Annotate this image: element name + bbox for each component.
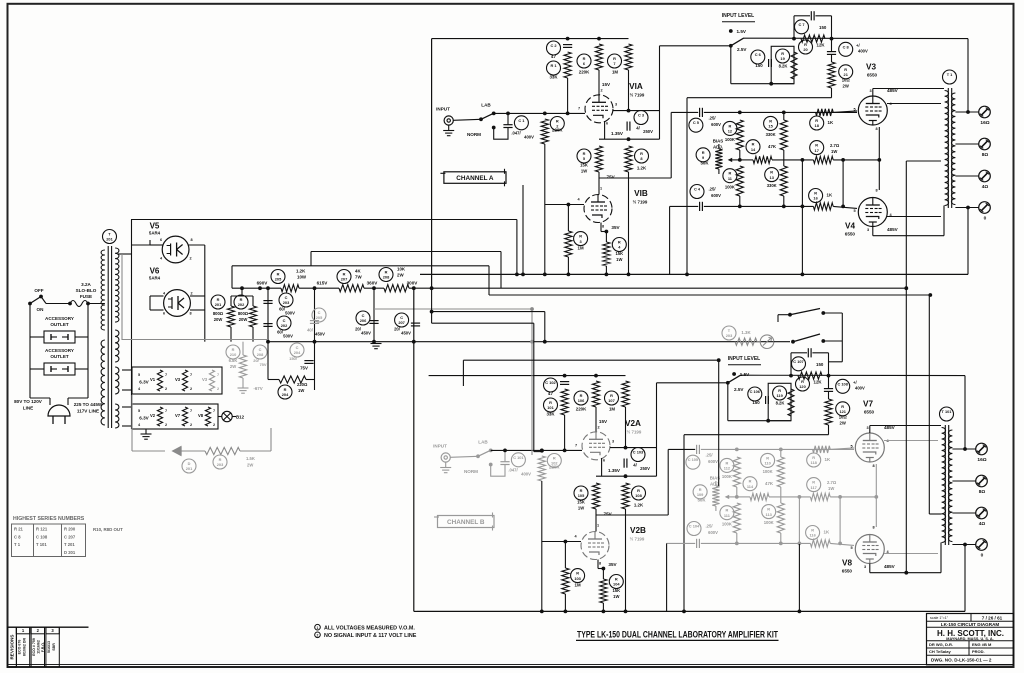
svg-text:5: 5 [138,409,140,413]
svg-text:B12: B12 [236,415,245,420]
svg-text:11/16/62: 11/16/62 [37,640,41,654]
svg-text:20: 20 [803,47,807,52]
svg-text:½ 7199: ½ 7199 [627,430,642,435]
svg-text:16Ω: 16Ω [980,120,989,126]
svg-text:V5: V5 [150,222,160,231]
svg-text:8: 8 [875,189,877,193]
svg-text:12K: 12K [817,43,826,48]
svg-text:2W: 2W [397,273,404,278]
svg-text:47: 47 [551,54,556,59]
svg-text:scale 1"=1": scale 1"=1" [930,616,949,620]
svg-text:C 107: C 107 [793,359,803,364]
svg-text:225 TO 445W: 225 TO 445W [74,402,103,407]
svg-text:TYPE LK-150 DUAL CHANNEL LABOR: TYPE LK-150 DUAL CHANNEL LABORATORY AMPL… [577,630,778,640]
svg-text:15K: 15K [577,500,585,505]
svg-text:2: 2 [213,423,215,427]
svg-text:C 8: C 8 [843,44,850,49]
svg-text:.25/: .25/ [709,187,717,192]
svg-text:R 21: R 21 [14,527,24,532]
svg-text:2.7Ω: 2.7Ω [830,143,840,148]
svg-text:10K: 10K [397,267,406,272]
svg-text:300V: 300V [407,281,419,286]
svg-text:V3: V3 [175,377,181,382]
svg-text:.75V: .75V [602,512,612,517]
svg-text:NO SIGNAL INPUT & 117 VOLT LIN: NO SIGNAL INPUT & 117 VOLT LINE [324,633,417,639]
svg-text:1: 1 [600,187,602,191]
svg-text:DWG. NO. D-LK-150-C1 — 2: DWG. NO. D-LK-150-C1 — 2 [931,658,992,663]
svg-text:120: 120 [799,384,806,389]
svg-text:ACCESSORY: ACCESSORY [45,348,74,353]
svg-text:3: 3 [866,426,868,430]
svg-text:400V: 400V [858,49,868,54]
svg-text:2: 2 [190,292,192,296]
svg-text:5: 5 [850,445,852,449]
svg-text:7 / 26 / 61: 7 / 26 / 61 [982,616,1003,621]
svg-text:220K: 220K [549,465,560,470]
svg-text:LAB: LAB [481,103,491,108]
svg-text:33K: 33K [549,75,558,80]
svg-text:3: 3 [615,103,617,107]
svg-text:118: 118 [811,460,818,465]
svg-text:150: 150 [816,362,824,367]
svg-text:500V: 500V [283,334,293,339]
svg-text:7: 7 [190,373,192,377]
svg-text:.75V: .75V [605,175,615,180]
svg-text:3: 3 [864,565,866,569]
svg-text:6550: 6550 [842,569,853,574]
svg-text:INPUT LEVEL: INPUT LEVEL [728,356,761,362]
svg-text:2: 2 [165,387,167,391]
svg-text:40/: 40/ [307,328,314,333]
svg-text:ON: ON [37,307,45,312]
svg-text:2.5V: 2.5V [737,47,747,52]
svg-text:100K: 100K [763,469,773,474]
svg-text:C 5: C 5 [693,120,700,125]
svg-text:1K: 1K [827,193,833,198]
svg-text:615V: 615V [317,281,329,286]
svg-text:1W: 1W [578,506,584,511]
svg-text:202: 202 [281,323,288,328]
svg-text:ENG #B M: ENG #B M [972,642,992,647]
svg-text:1.2K: 1.2K [296,269,306,274]
svg-text:ECO 676: ECO 676 [17,640,21,655]
svg-text:2: 2 [190,387,192,391]
svg-text:5AR4: 5AR4 [149,231,161,236]
svg-text:OUTLET: OUTLET [50,322,69,327]
svg-text:D 201: D 201 [64,550,76,555]
svg-text:C 1: C 1 [518,118,525,123]
svg-text:T 201: T 201 [64,542,75,547]
svg-text:330K: 330K [767,183,777,188]
svg-text:110: 110 [764,461,770,466]
svg-text:12K: 12K [814,380,823,385]
svg-text:5AR4: 5AR4 [149,276,161,281]
svg-text:100K: 100K [764,520,774,525]
svg-text:T 1: T 1 [947,72,953,77]
svg-text:202: 202 [238,302,245,307]
svg-text:5: 5 [853,108,855,112]
svg-text:R 121: R 121 [36,527,48,532]
svg-text:C 106: C 106 [750,389,761,394]
svg-text:.047/: .047/ [508,468,518,473]
svg-text:7: 7 [575,444,577,448]
svg-text:7: 7 [217,373,219,377]
svg-text:V8: V8 [198,413,204,418]
svg-text:LINE: LINE [23,406,33,411]
svg-text:C 101: C 101 [513,455,524,460]
svg-text:1K: 1K [825,457,831,462]
svg-text:20W: 20W [239,317,248,322]
svg-text:SLO-BLO: SLO-BLO [76,288,97,293]
svg-text:5: 5 [853,209,855,213]
svg-text:104: 104 [613,582,620,587]
svg-text:C 6: C 6 [755,52,762,57]
svg-text:0: 0 [981,553,984,559]
svg-text:ECO # 759: ECO # 759 [32,638,36,656]
svg-text:450V: 450V [315,332,325,337]
svg-text:117V LINE: 117V LINE [77,409,99,414]
svg-text:C 7: C 7 [798,22,804,27]
svg-text:5/16/13: 5/16/13 [47,641,51,653]
svg-text:112: 112 [724,466,731,471]
svg-text:6550: 6550 [864,410,875,415]
svg-text:207: 207 [398,320,405,325]
svg-text:360V: 360V [367,281,379,286]
svg-text:C 4: C 4 [694,187,701,192]
svg-text:1.5K: 1.5K [246,456,255,461]
svg-text:C 102: C 102 [545,380,556,385]
svg-text:400V: 400V [855,386,865,391]
svg-text:47K: 47K [768,144,777,149]
svg-text:203: 203 [283,300,290,305]
svg-text:1.5V: 1.5V [737,29,747,34]
svg-text:4Ω: 4Ω [982,184,989,190]
svg-text:117: 117 [811,485,817,490]
svg-text:103: 103 [574,576,581,581]
svg-text:1W: 1W [298,388,304,393]
svg-text:FUSE: FUSE [80,294,92,299]
svg-text:INPUT LEVEL: INPUT LEVEL [722,13,755,19]
svg-text:6.3V: 6.3V [139,380,149,385]
svg-text:1.2K: 1.2K [634,503,644,508]
svg-text:7W: 7W [355,275,362,280]
svg-text:33K: 33K [546,412,555,417]
svg-text:8Ω: 8Ω [979,489,986,495]
svg-text:600V: 600V [711,122,721,127]
svg-text:207: 207 [341,277,348,282]
svg-text:75V: 75V [259,362,266,367]
svg-text:109: 109 [697,492,704,497]
svg-text:1W: 1W [581,169,587,174]
svg-text:150: 150 [752,400,760,405]
svg-text:V6: V6 [150,267,160,276]
svg-text:1W: 1W [831,149,837,154]
svg-text:220K: 220K [579,70,590,75]
svg-text:111: 111 [724,513,731,518]
svg-text:.25/: .25/ [706,453,714,458]
svg-text:100K: 100K [722,474,732,479]
svg-text:CHANNEL A: CHANNEL A [456,175,494,182]
svg-text:8: 8 [189,312,191,316]
svg-text:V2B: V2B [630,526,646,535]
svg-text:101: 101 [547,405,554,410]
svg-text:485V: 485V [887,227,899,232]
svg-text:7: 7 [613,61,615,66]
svg-text:1K: 1K [828,120,834,125]
svg-text:250V: 250V [640,466,650,471]
svg-text:114: 114 [747,484,754,489]
svg-text:4Ω: 4Ω [979,521,986,527]
svg-text:220Ω: 220Ω [297,382,308,387]
svg-text:REVISIONS: REVISIONS [10,634,15,659]
svg-text:LAB: LAB [478,440,488,445]
svg-text:BIAS: BIAS [713,139,724,144]
svg-text:MAYNARD, MASS. U. S. A.: MAYNARD, MASS. U. S. A. [946,637,993,641]
svg-text:NORM: NORM [467,132,481,137]
svg-text:ADJ.: ADJ. [713,145,723,150]
svg-text:201: 201 [186,466,193,471]
svg-text:6: 6 [603,459,605,463]
svg-text:116: 116 [809,533,816,538]
svg-text:121: 121 [839,409,846,414]
svg-text:SBR: SBR [52,643,56,651]
svg-text:6: 6 [163,312,165,316]
svg-text:C 108: C 108 [36,534,48,539]
svg-text:4K: 4K [355,269,361,274]
svg-text:1: 1 [317,626,319,630]
svg-text:16Ω: 16Ω [977,457,986,463]
svg-text:T 101: T 101 [36,542,47,547]
svg-text:T 101: T 101 [942,409,953,414]
svg-text:7: 7 [165,409,167,413]
svg-text:0: 0 [984,216,987,222]
svg-text:V4: V4 [845,222,855,231]
svg-text:208: 208 [257,352,264,357]
svg-text:690V: 690V [257,281,269,286]
svg-text:R 200: R 200 [64,527,76,532]
svg-text:450V: 450V [361,331,371,336]
svg-text:C 108: C 108 [838,381,849,386]
svg-text:600V: 600V [711,193,721,198]
svg-text:1K: 1K [824,530,830,535]
svg-text:8Ω: 8Ω [982,152,989,158]
svg-text:OUTLET: OUTLET [50,354,69,359]
svg-text:8: 8 [872,464,874,468]
svg-text:8.2K: 8.2K [776,401,785,406]
svg-text:V2: V2 [150,413,156,418]
svg-text:VIB: VIB [634,189,648,198]
svg-text:½ 7199: ½ 7199 [630,93,645,98]
svg-text:OFF: OFF [34,288,43,293]
svg-text:100K: 100K [725,137,735,142]
svg-text:201: 201 [106,237,113,242]
svg-text:.25/: .25/ [706,524,714,529]
svg-text:105: 105 [578,493,585,498]
svg-text:7: 7 [190,409,192,413]
svg-text:1M: 1M [578,246,584,251]
svg-text:2.5V: 2.5V [734,387,744,392]
svg-text:205: 205 [275,277,282,282]
svg-text:500V: 500V [285,311,295,316]
svg-text:7: 7 [578,107,580,111]
svg-text:1W: 1W [616,257,622,262]
svg-text:75V: 75V [300,366,308,371]
svg-text:2: 2 [165,423,167,427]
svg-text:17: 17 [815,148,819,153]
svg-text:1.2K: 1.2K [637,166,647,171]
svg-text:206: 206 [360,318,367,323]
svg-text:F.R.Q.: F.R.Q. [41,642,45,652]
svg-text:5: 5 [138,373,140,377]
svg-text:1W: 1W [828,486,834,491]
svg-text:1: 1 [597,524,599,528]
svg-text:C 8: C 8 [14,534,21,539]
svg-text:2W: 2W [840,421,846,426]
svg-text:C 105: C 105 [688,457,699,462]
svg-text:1W: 1W [613,594,619,599]
svg-text:2: 2 [317,634,319,638]
svg-text:V7: V7 [863,400,873,409]
svg-text:6550: 6550 [867,73,878,78]
svg-text:ACCESSORY: ACCESSORY [45,316,74,321]
svg-text:50K: 50K [700,161,709,166]
svg-text:106: 106 [578,398,585,403]
svg-text:201: 201 [215,302,222,307]
svg-text:R 1: R 1 [550,63,557,68]
svg-text:INPUT: INPUT [436,107,450,112]
svg-text:47: 47 [548,391,553,396]
svg-text:400V: 400V [521,472,531,477]
svg-text:35V: 35V [611,225,620,230]
svg-text:20/: 20/ [394,327,401,332]
svg-text:1.5V: 1.5V [740,372,750,377]
svg-text:CH TeSalay: CH TeSalay [929,649,951,654]
svg-text:V8: V8 [842,559,852,568]
svg-text:2: 2 [217,387,219,391]
svg-text:2W: 2W [843,84,849,89]
svg-text:R10, R8D OUT: R10, R8D OUT [93,527,123,532]
svg-text:205: 205 [316,315,323,320]
svg-text:15K: 15K [615,251,623,256]
svg-text:1.35V: 1.35V [608,468,621,473]
svg-text:6550: 6550 [845,232,856,237]
svg-text:150/: 150/ [289,356,298,361]
svg-text:210: 210 [230,352,237,357]
svg-text:113: 113 [766,512,773,517]
svg-text:8: 8 [875,127,877,131]
svg-text:10Ω: 10Ω [839,415,848,420]
svg-text:10W: 10W [297,275,307,280]
svg-text:8: 8 [599,562,601,566]
svg-text:8: 8 [602,225,604,229]
svg-text:119: 119 [776,393,783,398]
svg-text:400V: 400V [524,135,534,140]
svg-text:VIA: VIA [629,82,643,91]
svg-text:35V: 35V [608,562,617,567]
svg-text:1.3K: 1.3K [741,330,751,335]
svg-text:100K: 100K [725,185,735,190]
svg-text:INPUT: INPUT [433,444,447,449]
svg-text:485V: 485V [884,564,896,569]
svg-text:-67V: -67V [253,386,262,391]
svg-text:C 103: C 103 [633,450,644,455]
svg-text:800Ω: 800Ω [213,311,224,316]
svg-text:8: 8 [190,238,192,242]
svg-text:½ 7199: ½ 7199 [633,200,648,205]
svg-text:8: 8 [872,526,874,530]
svg-text:6.3V: 6.3V [139,416,149,421]
svg-text:C 207: C 207 [64,534,76,539]
svg-text:15V: 15V [599,419,608,424]
svg-text:2: 2 [597,426,599,430]
svg-text:108: 108 [635,493,642,498]
svg-text:HIGHEST SERIES NUMBERS: HIGHEST SERIES NUMBERS [13,516,85,522]
svg-text:450V: 450V [401,331,411,336]
svg-text:ALL VOLTAGES MEASURED V.O.M.: ALL VOLTAGES MEASURED V.O.M. [324,626,415,632]
svg-text:3.2A: 3.2A [81,282,91,287]
svg-text:15K: 15K [612,588,620,593]
svg-text:330K: 330K [766,132,776,137]
svg-text:3: 3 [869,89,871,93]
svg-text:204: 204 [294,350,301,355]
svg-text:220K: 220K [552,128,563,133]
svg-text:107: 107 [608,398,615,403]
svg-text:2W: 2W [247,463,253,468]
svg-text:PROD.: PROD. [972,649,985,654]
svg-text:20W: 20W [214,317,223,322]
svg-text:C 3: C 3 [638,113,645,118]
svg-text:V7: V7 [175,413,181,418]
svg-text:T 1: T 1 [14,542,21,547]
svg-text:10Ω: 10Ω [842,78,851,83]
svg-text:2: 2 [190,423,192,427]
svg-text:6: 6 [606,122,608,126]
svg-text:8/10/62 DR: 8/10/62 DR [23,638,27,657]
svg-text:6: 6 [160,238,162,242]
svg-text:15K: 15K [580,163,588,168]
svg-text:1.35V: 1.35V [611,131,624,136]
svg-text:1M: 1M [575,583,581,588]
svg-text:80V TO 120V: 80V TO 120V [14,399,43,404]
svg-text:203: 203 [726,333,733,338]
svg-text:800Ω: 800Ω [238,311,249,316]
svg-text:LK-150 CIRCUIT DIAGRAM: LK-150 CIRCUIT DIAGRAM [941,622,1000,627]
svg-text:½ 7199: ½ 7199 [630,537,645,542]
svg-text:600V: 600V [708,459,718,464]
svg-text:.25/: .25/ [709,116,717,121]
svg-text:100K: 100K [722,522,732,527]
svg-text:203: 203 [217,462,224,467]
svg-text:250V: 250V [643,129,653,134]
svg-text:150: 150 [819,25,827,30]
svg-text:3: 3 [867,228,869,232]
svg-text:V1: V1 [150,377,156,382]
svg-text:1M: 1M [612,70,618,75]
svg-text:2.7Ω: 2.7Ω [827,480,837,485]
svg-text:2W: 2W [230,364,236,369]
svg-text:NORM: NORM [464,469,478,474]
svg-text:2: 2 [600,89,602,93]
svg-text:3: 3 [612,440,614,444]
svg-text:C 104: C 104 [689,524,700,529]
svg-text:8.2K: 8.2K [779,64,788,69]
svg-text:220K: 220K [576,407,587,412]
svg-text:204: 204 [282,392,289,397]
svg-text:CHANNEL B: CHANNEL B [447,519,485,526]
svg-text:C 2: C 2 [550,43,557,48]
svg-text:.047/: .047/ [511,131,521,136]
svg-text:V2A: V2A [625,419,641,428]
